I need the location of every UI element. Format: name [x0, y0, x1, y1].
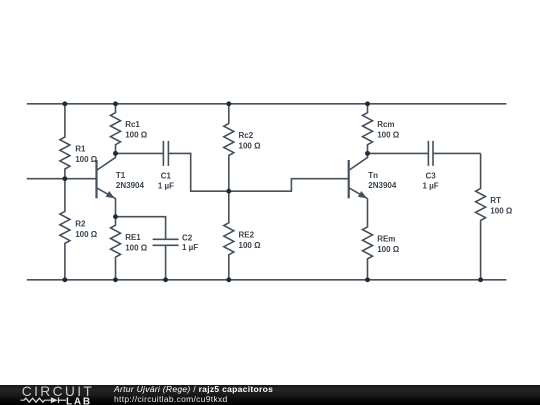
CircuitLab logo	[0, 382, 110, 405]
wire: C2 bottom to ground rail	[165, 245, 167, 279]
svg-text:1 µF: 1 µF	[182, 243, 198, 252]
resistor RT	[476, 153, 486, 279]
node: Rc2/RE2 junction	[226, 189, 231, 194]
resistor Rc1	[111, 104, 121, 154]
svg-text:C2: C2	[182, 234, 193, 243]
resistor REm	[363, 199, 373, 280]
resistor R1	[60, 104, 70, 179]
label RT value	[490, 196, 513, 216]
node: top rail / Rc2	[226, 101, 231, 106]
label Rcm value	[377, 120, 400, 140]
footer bar	[0, 385, 540, 405]
label C1 value	[158, 171, 174, 190]
node: T1 emitter	[113, 214, 118, 219]
wire: C3 right plate to RT	[433, 152, 481, 154]
wire: Tn collector to C3 left plate	[368, 152, 429, 154]
svg-text:RE2: RE2	[239, 230, 255, 239]
label R1 value	[75, 145, 98, 165]
svg-text:Rcm: Rcm	[377, 120, 394, 129]
label C3 value	[423, 171, 439, 190]
svg-text:Rc2: Rc2	[239, 131, 254, 140]
svg-text:RT: RT	[490, 196, 501, 205]
resistor R2	[60, 179, 70, 280]
node: ground rail / R2	[62, 277, 67, 282]
node: top rail / R1	[62, 101, 67, 106]
capacitor C1	[163, 141, 168, 166]
footer credit line	[114, 385, 273, 394]
label R2 value	[75, 219, 98, 239]
node: ground rail / C2	[163, 277, 168, 282]
label RE1 value	[125, 233, 148, 253]
svg-text:100 Ω: 100 Ω	[239, 142, 262, 151]
node: ground rail / RT	[478, 277, 483, 282]
svg-text:100 Ω: 100 Ω	[490, 207, 513, 216]
capacitor C3	[428, 141, 433, 166]
label Rc2 value	[239, 131, 262, 151]
node: top rail / Rcm	[365, 101, 370, 106]
node: Tn collector	[365, 151, 370, 156]
wire: bottom ground rail	[27, 279, 507, 281]
svg-text:Tn: Tn	[368, 171, 378, 180]
svg-text:1 µF: 1 µF	[158, 181, 174, 190]
svg-text:1 µF: 1 µF	[423, 181, 439, 190]
label T1 2N3904	[116, 171, 145, 190]
transistor T1	[97, 153, 116, 216]
svg-text:100 Ω: 100 Ω	[125, 243, 148, 252]
label C2 value	[182, 234, 198, 253]
svg-text:2N3904: 2N3904	[368, 181, 397, 190]
wire: C1 right plate to Rc2 junction and Tn base	[168, 153, 348, 191]
svg-text:100 Ω: 100 Ω	[75, 230, 98, 239]
svg-text:2N3904: 2N3904	[116, 181, 145, 190]
node: R1/R2 divider tap	[62, 176, 67, 181]
svg-text:Rc1: Rc1	[125, 120, 140, 129]
svg-text:100 Ω: 100 Ω	[75, 155, 98, 164]
resistor RE1	[111, 217, 121, 280]
svg-text:RE1: RE1	[125, 233, 141, 242]
svg-text:R1: R1	[75, 145, 86, 154]
transistor Tn	[349, 153, 368, 198]
svg-text:LAB: LAB	[66, 396, 92, 405]
resistor Rcm	[363, 104, 373, 154]
svg-text:100 Ω: 100 Ω	[239, 241, 262, 250]
node: ground rail / REm	[365, 277, 370, 282]
wire: left mid rail to T1 base	[27, 178, 97, 180]
node: ground rail / RE1	[113, 277, 118, 282]
footer url line	[114, 395, 228, 404]
svg-text:100 Ω: 100 Ω	[377, 131, 400, 140]
capacitor C2	[153, 239, 179, 245]
svg-text:100 Ω: 100 Ω	[377, 245, 400, 254]
resistor Rc2	[224, 104, 234, 191]
node: top rail / Rc1	[113, 101, 118, 106]
resistor RE2	[224, 191, 234, 280]
svg-text:REm: REm	[377, 234, 395, 243]
svg-text:100 Ω: 100 Ω	[125, 131, 148, 140]
label REm value	[377, 234, 400, 254]
wire: top supply rail	[27, 103, 507, 105]
label Rc1 value	[125, 120, 148, 140]
node: ground rail / RE2	[226, 277, 231, 282]
wire: T1 collector to C1 left plate	[116, 152, 164, 154]
label RE2 value	[239, 230, 262, 250]
svg-text:T1: T1	[116, 171, 126, 180]
label Tn 2N3904	[368, 171, 397, 190]
wire: T1 emitter node to C2 top	[116, 217, 166, 240]
svg-text:C3: C3	[425, 171, 436, 180]
node: T1 collector	[113, 151, 118, 156]
svg-text:C1: C1	[161, 171, 172, 180]
svg-text:R2: R2	[75, 219, 86, 228]
